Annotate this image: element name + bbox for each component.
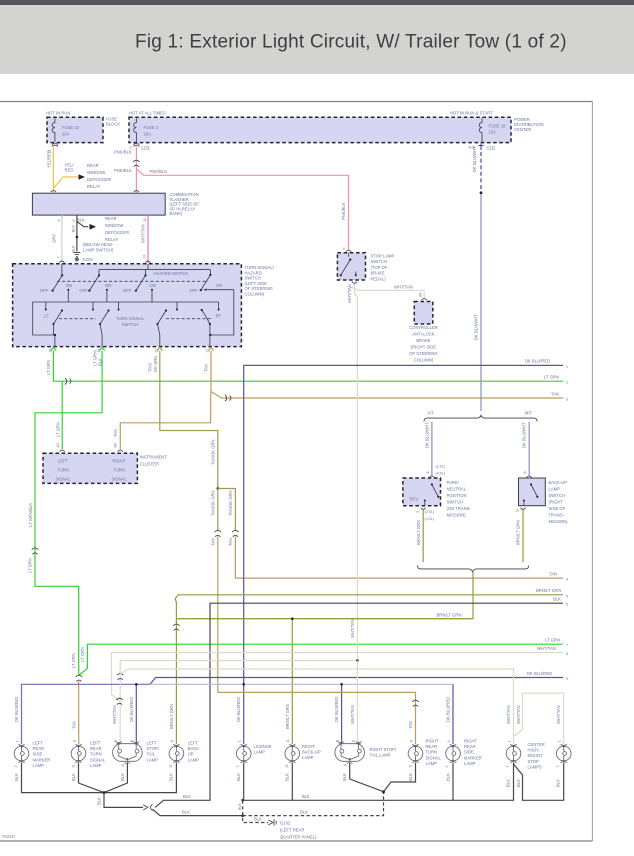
svg-text:BLK: BLK — [556, 779, 561, 787]
svg-text:HIGH-: HIGH- — [528, 748, 540, 753]
wire TAN Y branch to bus 3 — [211, 391, 568, 401]
svg-text:2: 2 — [445, 765, 449, 767]
svg-text:TURN: TURN — [113, 468, 125, 473]
turn signal linkage dashed line — [59, 318, 213, 320]
svg-text:DK BLU/WHT: DK BLU/WHT — [424, 422, 429, 448]
junction TAN/DK GRN split — [217, 487, 220, 490]
back-up switch contact arm — [523, 483, 539, 505]
splice lower on left tail pin A wire — [116, 698, 123, 704]
svg-text:8: 8 — [566, 652, 568, 656]
svg-text:BLK: BLK — [72, 224, 76, 232]
svg-text:MISSION): MISSION) — [447, 513, 467, 518]
wire DK BLU/RED bus 9 from right edge with jog — [150, 671, 568, 685]
svg-text:RIGHT STOP/: RIGHT STOP/ — [370, 747, 397, 752]
svg-text:HAZARD SWITCH: HAZARD SWITCH — [154, 271, 189, 276]
svg-text:WHT/TAN: WHT/TAN — [141, 224, 146, 243]
svg-text:BLK: BLK — [553, 597, 561, 602]
connector arc backup switch pin A — [527, 476, 532, 478]
wire BLK right turn signal to junction — [384, 763, 416, 792]
svg-text:5: 5 — [566, 594, 568, 598]
wire DK BLU/RED drop to right stop/tail lamp pin B — [334, 683, 343, 744]
svg-text:BRN/LT GRN: BRN/LT GRN — [169, 704, 174, 729]
svg-text:LT GRN: LT GRN — [55, 422, 60, 437]
wire WHT/TAN long vertical to rear lamps — [347, 284, 358, 661]
lamp: center high-mount stop lamp B — [556, 744, 571, 767]
turn signal rail left U to LT output — [33, 302, 55, 347]
svg-text:CENTER: CENTER — [528, 742, 545, 747]
svg-text:LAMP: LAMP — [302, 755, 314, 760]
hazard top rail — [99, 269, 210, 271]
diagram frame bottom line — [0, 840, 592, 842]
wire BRN/LT GRN cross line to right back-up lamp — [176, 619, 473, 744]
diagram frame right line — [591, 102, 593, 842]
wire TAN pin17 down with Y-split — [113, 351, 211, 450]
lamp: left stop/tail lamp (dual) — [113, 741, 160, 767]
svg-text:SWITCH: SWITCH — [245, 276, 262, 281]
lamp: left back-up lamp — [169, 741, 201, 768]
svg-text:7593H: 7593H — [2, 834, 16, 839]
hazard switch pole 3 — [123, 274, 156, 293]
ground symbol G102 — [268, 819, 276, 825]
svg-text:1: 1 — [507, 740, 511, 742]
wire TAN/DK GRN right branch — [218, 489, 236, 531]
lamp: center high-mount stop lamp A — [506, 742, 545, 769]
splice on left branch — [215, 530, 222, 536]
svg-text:LEFT: LEFT — [33, 741, 44, 746]
hazard output pin 12 connector — [157, 347, 162, 350]
svg-text:SWITCH: SWITCH — [447, 500, 464, 505]
svg-text:TAN/DK GRN: TAN/DK GRN — [228, 490, 233, 516]
turn signal rail — [46, 302, 219, 309]
junction dot left ground bus — [103, 791, 106, 794]
svg-text:LT GRN: LT GRN — [545, 638, 560, 643]
connector C151 under fuse 3, pin 1 — [130, 143, 150, 149]
svg-text:CLUSTER: CLUSTER — [140, 461, 160, 466]
wire DK BLU/RED drop to left stop/tail lamp pin B — [129, 683, 138, 744]
svg-text:SIDE: SIDE — [33, 752, 43, 757]
svg-text:SIGNAL: SIGNAL — [90, 757, 106, 762]
svg-text:LT GRN: LT GRN — [80, 647, 85, 662]
fuse F18 symbol — [479, 118, 506, 142]
dot at dashed vertical top — [241, 799, 244, 802]
PNP switch contact arm — [410, 483, 440, 505]
svg-text:BRN/LT GRN: BRN/LT GRN — [536, 588, 561, 593]
svg-text:PNK/BLK: PNK/BLK — [114, 168, 132, 173]
wire BLK junction down to inline connector — [97, 793, 144, 808]
wire LT GRN branch down to instrument cluster A2 — [55, 381, 62, 449]
dot at dashed vertical bottom — [241, 814, 244, 817]
svg-text:PNK/BLK: PNK/BLK — [341, 202, 346, 220]
svg-text:BLK: BLK — [516, 779, 521, 787]
svg-text:LT GRN: LT GRN — [544, 375, 559, 380]
svg-text:MOUNT: MOUNT — [528, 753, 544, 758]
svg-text:LAMP SWITCH): LAMP SWITCH) — [83, 248, 114, 253]
svg-text:LICENSE: LICENSE — [254, 744, 272, 749]
junction dot right ground — [382, 790, 385, 793]
svg-text:5: 5 — [72, 219, 76, 221]
svg-text:(4.0L): (4.0L) — [425, 517, 435, 521]
svg-text:(4.0L): (4.0L) — [436, 472, 446, 476]
svg-text:LT GRN: LT GRN — [28, 558, 33, 573]
wire WHT/TAN loop to second center lamp — [514, 693, 564, 744]
svg-text:BLK: BLK — [97, 797, 102, 805]
svg-text:MARKER: MARKER — [464, 755, 482, 760]
svg-text:DK BLU/RED: DK BLU/RED — [446, 697, 451, 722]
svg-text:TAN: TAN — [71, 721, 76, 729]
back-up lamp switch box — [519, 478, 569, 524]
svg-text:WHT/TAN: WHT/TAN — [112, 705, 117, 724]
wire BRN/LT GRN from PNP down — [416, 510, 423, 563]
splice on PNK/BLK — [133, 160, 140, 166]
svg-text:RIGHT: RIGHT — [112, 458, 125, 463]
flasher pin 2 connector — [134, 190, 139, 192]
lamp: right rear turn signal lamp — [408, 739, 441, 768]
svg-text:2: 2 — [236, 765, 240, 767]
svg-text:TAIL LAMP: TAIL LAMP — [370, 753, 391, 758]
wire WHT/TAN to controller anti-lock brake — [354, 284, 424, 299]
svg-text:RIGHT: RIGHT — [302, 744, 315, 749]
svg-text:G: G — [121, 764, 125, 767]
junction dot on DK BLU/WHT — [480, 191, 483, 194]
lamp: right rear side marker lamp — [445, 739, 482, 768]
splice upper on left tail pin A wire — [117, 674, 124, 680]
dashed BLK vertical and ground lead — [238, 800, 317, 839]
wire LT GRN branch up to bus 7 — [79, 638, 568, 676]
svg-text:C151: C151 — [141, 146, 150, 150]
svg-text:DK BLU/RED: DK BLU/RED — [525, 359, 550, 364]
junction dot right back-up feed — [291, 617, 294, 620]
wire BLK bus 6 from right edge with dropper — [155, 597, 568, 808]
svg-text:LAMP: LAMP — [464, 761, 476, 766]
fuse block box (FUSE 10) — [46, 111, 120, 143]
svg-text:TAN: TAN — [113, 429, 118, 437]
svg-text:(BELOW HEAD-: (BELOW HEAD- — [83, 242, 114, 247]
wire BLK connector to dashed ground leg — [153, 809, 309, 815]
svg-text:1: 1 — [566, 365, 568, 369]
svg-text:RIGHT: RIGHT — [464, 739, 477, 744]
svg-text:WINDOW: WINDOW — [105, 223, 123, 228]
svg-text:BLK: BLK — [445, 773, 450, 781]
wire PNK/BLK from fuse 3 down to flasher pin 2 — [114, 147, 136, 212]
svg-text:LEFT: LEFT — [147, 741, 158, 746]
svg-text:REAR: REAR — [87, 163, 99, 168]
svg-text:LT GRN: LT GRN — [46, 360, 51, 375]
svg-text:SIGNAL: SIGNAL — [426, 755, 442, 760]
svg-text:1: 1 — [557, 740, 561, 742]
wire DK BLU/RED bus 1 from right edge, corner down the middle — [244, 359, 568, 685]
svg-text:SWITCH: SWITCH — [549, 493, 566, 498]
wire BLK right back-up down — [285, 763, 293, 801]
wire BLK solid ground bus to center lamps — [243, 794, 514, 800]
svg-text:BACK-UP: BACK-UP — [549, 480, 568, 485]
svg-text:20A: 20A — [62, 131, 70, 136]
svg-text:TURN: TURN — [57, 468, 69, 473]
svg-text:OFF: OFF — [123, 288, 132, 293]
wire BLK center lamp A to lamp B ground link — [514, 763, 564, 801]
wire BLK flasher pin 5 to ground G202 — [72, 215, 89, 252]
svg-text:REAR: REAR — [33, 746, 45, 751]
svg-text:10: 10 — [143, 217, 147, 221]
wire TAN right branch to bus 4 — [228, 537, 568, 582]
svg-text:QUARTER PANEL): QUARTER PANEL) — [280, 835, 317, 840]
svg-text:TURN SIGNAL: TURN SIGNAL — [116, 316, 145, 321]
svg-text:DK BLU/RED: DK BLU/RED — [527, 671, 552, 676]
svg-text:SIDE: SIDE — [464, 750, 474, 755]
wire BLK left side marker to junction — [14, 763, 104, 793]
svg-text:G: G — [408, 765, 412, 768]
svg-text:(ON TRANS-: (ON TRANS- — [447, 506, 472, 511]
turn signal pole mid-right — [156, 309, 167, 346]
svg-text:STOP/: STOP/ — [147, 746, 160, 751]
svg-text:(2.5L): (2.5L) — [425, 510, 435, 514]
svg-text:6: 6 — [566, 603, 568, 607]
stop lamp switch contact arm — [340, 253, 357, 277]
hazard pin 7 connector — [59, 261, 64, 263]
svg-text:LAMP: LAMP — [188, 757, 200, 762]
svg-text:BLK: BLK — [72, 245, 76, 253]
wire BRN/LT GRN from brace down and left — [176, 572, 473, 619]
svg-text:A/T: A/T — [427, 411, 434, 416]
svg-text:BLOCK: BLOCK — [106, 122, 120, 127]
svg-text:SIGNAL: SIGNAL — [111, 477, 127, 482]
svg-text:BLK: BLK — [98, 358, 103, 366]
svg-text:SIDE OF: SIDE OF — [549, 506, 566, 511]
wire WHT/TAN bus 8 from right edge, corner down to left tail feed — [112, 646, 569, 701]
svg-text:LAMPS: LAMPS — [528, 764, 542, 769]
svg-text:DK GRN: DK GRN — [153, 356, 158, 372]
svg-text:TURN SIGNAL/: TURN SIGNAL/ — [245, 265, 275, 270]
wire BLK left stop/tail to junction — [104, 763, 127, 793]
svg-text:STOP: STOP — [528, 759, 540, 764]
svg-text:1: 1 — [447, 740, 451, 742]
svg-text:A2: A2 — [56, 443, 60, 448]
svg-text:C151: C151 — [487, 146, 496, 150]
svg-text:B6: B6 — [114, 443, 118, 448]
svg-text:PNK/BLK: PNK/BLK — [150, 169, 168, 174]
svg-text:G202: G202 — [83, 257, 94, 262]
svg-text:G: G — [71, 765, 75, 768]
wire BLK right side marker down — [445, 763, 453, 801]
svg-text:INSTRUMENT: INSTRUMENT — [140, 455, 168, 460]
fuse block pin connector — [52, 143, 58, 146]
svg-text:RT: RT — [216, 314, 222, 319]
svg-text:LEFT: LEFT — [58, 458, 69, 463]
svg-text:TAN: TAN — [551, 391, 559, 396]
svg-text:G: G — [285, 765, 289, 768]
svg-text:COLUMN): COLUMN) — [245, 292, 265, 297]
svg-text:BLK: BLK — [238, 802, 242, 810]
turn signal contact dots — [45, 309, 220, 311]
svg-text:(TOP OF: (TOP OF — [371, 265, 388, 270]
svg-text:DK BLU/WHT: DK BLU/WHT — [474, 314, 479, 340]
svg-text:BRAKE: BRAKE — [371, 271, 385, 276]
svg-text:DK BLU/RED: DK BLU/RED — [334, 697, 339, 722]
svg-text:BLK: BLK — [14, 773, 19, 781]
svg-text:PNK/BLK: PNK/BLK — [114, 150, 132, 155]
svg-text:TURN: TURN — [426, 750, 438, 755]
svg-text:12: 12 — [155, 349, 159, 353]
svg-text:2: 2 — [14, 765, 18, 767]
svg-text:HOT AT ALL TIMES: HOT AT ALL TIMES — [129, 111, 166, 116]
wire LT GRN/BLK pin15 down, left, down left side — [28, 349, 103, 674]
arrow note: rear window defogger relay (lower) — [77, 216, 129, 242]
svg-text:BRAKE: BRAKE — [416, 338, 430, 343]
hazard output pin 17 connector — [208, 347, 213, 350]
hazard switch pole 1 — [40, 274, 72, 293]
splice on right turn lamp feed — [412, 700, 419, 706]
svg-text:(2.5L): (2.5L) — [436, 465, 446, 469]
svg-text:LAMP: LAMP — [147, 757, 159, 762]
wire TAN below splice to left rear turn signal lamp — [71, 682, 78, 745]
splice on LT GRN bus 2 — [65, 378, 71, 385]
PNP pin 3 labels — [416, 510, 434, 521]
svg-text:OFF: OFF — [79, 288, 88, 293]
turn signal pole LT — [52, 309, 63, 335]
svg-text:WINDOW: WINDOW — [87, 170, 105, 175]
svg-text:20A: 20A — [144, 131, 152, 136]
merge brace for BRN/LT GRN — [418, 566, 529, 572]
lamp: right back-up lamp — [285, 744, 321, 768]
svg-text:BRN/LT GRN: BRN/LT GRN — [416, 520, 421, 545]
svg-text:LT: LT — [44, 314, 49, 319]
svg-text:7: 7 — [57, 256, 61, 258]
svg-text:WHT/TAN: WHT/TAN — [516, 705, 521, 724]
hazard output pin 16 connector — [51, 347, 56, 350]
brace splitting to A/T and M/T — [424, 415, 537, 421]
svg-text:RED: RED — [65, 168, 74, 173]
svg-text:15A: 15A — [489, 130, 497, 135]
svg-text:DK BLU/WHT: DK BLU/WHT — [472, 146, 477, 172]
svg-text:BLK: BLK — [120, 773, 125, 781]
junction dot on BLK — [76, 236, 79, 239]
hazard pole4 ON contact U-path to RT output — [203, 288, 234, 336]
svg-text:HOT IN RUN & START: HOT IN RUN & START — [450, 111, 493, 116]
splice on right branch — [232, 530, 239, 536]
svg-text:BRN/LT GRN: BRN/LT GRN — [516, 520, 521, 545]
hazard pole stems from box pins — [62, 264, 211, 302]
svg-text:ANTI-LOCK: ANTI-LOCK — [412, 332, 435, 337]
svg-text:M/T: M/T — [525, 411, 533, 416]
splice LT GRN to TAN (left turn feed) — [76, 675, 83, 681]
svg-text:4: 4 — [57, 219, 61, 221]
svg-text:GRY: GRY — [52, 234, 57, 243]
splice on left back-up feed — [173, 624, 180, 630]
connector arc PNP bottom — [421, 508, 426, 510]
svg-text:BLK: BLK — [71, 773, 76, 781]
svg-text:NEUTRAL: NEUTRAL — [447, 487, 467, 492]
svg-text:LAMP: LAMP — [426, 761, 438, 766]
svg-text:BLK: BLK — [342, 773, 347, 781]
svg-text:SWITCH: SWITCH — [371, 259, 388, 264]
svg-text:BLK: BLK — [302, 794, 310, 799]
svg-text:LAMP: LAMP — [90, 763, 102, 768]
svg-text:16: 16 — [49, 349, 53, 353]
svg-text:BRN/LT GRN: BRN/LT GRN — [437, 612, 462, 617]
controller anti-lock brake box — [409, 302, 438, 363]
svg-text:1: 1 — [238, 740, 242, 742]
svg-text:MISSION): MISSION) — [549, 519, 569, 524]
svg-text:UP: UP — [188, 752, 194, 757]
svg-text:2: 2 — [506, 765, 510, 767]
turn signal pole mid-left — [99, 309, 110, 346]
combination flasher box — [32, 192, 199, 216]
svg-text:ON: ON — [216, 283, 222, 288]
wire WHT/TAN right tail pin A drop — [350, 661, 358, 745]
svg-text:REV: REV — [410, 497, 419, 502]
hazard linkage dashed line — [57, 280, 208, 282]
svg-text:DK BLU/RED: DK BLU/RED — [14, 697, 19, 722]
svg-text:4: 4 — [566, 578, 568, 582]
svg-text:3: 3 — [566, 398, 568, 402]
svg-text:9: 9 — [566, 677, 568, 681]
wire DK BLU/WHT solid down to A/T M/T brace — [474, 194, 482, 411]
svg-text:BLK: BLK — [285, 773, 290, 781]
diagram frame top line — [0, 101, 593, 103]
splice on left LT GRN run — [32, 548, 39, 554]
svg-text:BLK: BLK — [300, 810, 308, 815]
svg-text:TAN: TAN — [203, 364, 208, 372]
svg-text:FUSE 3: FUSE 3 — [144, 125, 159, 130]
right turn signal label — [111, 458, 127, 481]
svg-text:BLK: BLK — [236, 773, 241, 781]
stop lamp switch box — [337, 253, 394, 282]
svg-text:BACK-: BACK- — [188, 746, 201, 751]
wire DK BLU/RED drop to license lamp — [236, 683, 245, 744]
flasher pin 1 connector — [51, 190, 56, 192]
wire BLK left back-up to junction — [104, 763, 176, 793]
lamp: left rear side marker lamp — [14, 741, 51, 768]
svg-text:REAR: REAR — [90, 746, 102, 751]
svg-text:G102: G102 — [280, 821, 291, 826]
svg-text:REAR: REAR — [426, 744, 438, 749]
cluster pin A2 connector — [60, 450, 65, 452]
inline connector symbol — [143, 804, 152, 810]
svg-text:TAN/: TAN/ — [148, 362, 153, 372]
svg-text:TAN/DK GRN: TAN/DK GRN — [210, 490, 215, 516]
svg-text:2: 2 — [556, 765, 560, 767]
svg-text:DEFOGGER: DEFOGGER — [105, 230, 129, 235]
svg-text:TAN: TAN — [210, 538, 215, 546]
svg-text:LT GRN: LT GRN — [71, 653, 76, 668]
svg-text:2: 2 — [566, 381, 568, 385]
svg-text:FUSE 10: FUSE 10 — [62, 125, 80, 130]
svg-text:OFF: OFF — [189, 288, 198, 293]
svg-text:A8: A8 — [418, 292, 422, 297]
svg-text:1: 1 — [15, 740, 19, 742]
hazard output pin 15 connector — [100, 347, 105, 350]
arrow note: rear window defogger relay (upper) — [79, 163, 111, 189]
svg-text:SWITCH: SWITCH — [122, 322, 139, 327]
turn signal / hazard switch box — [13, 264, 275, 347]
svg-text:WHT/TAN: WHT/TAN — [350, 619, 355, 638]
svg-text:DK BLU/RED: DK BLU/RED — [236, 697, 241, 722]
svg-text:TAN/DK GRN: TAN/DK GRN — [210, 439, 215, 465]
splice on TAN bus 3 — [225, 395, 231, 402]
svg-text:G: G — [516, 509, 520, 512]
svg-text:(RIGHT: (RIGHT — [549, 500, 564, 505]
svg-text:TAN: TAN — [228, 538, 233, 546]
header dark top bar — [0, 0, 634, 5]
svg-text:YEL/RED: YEL/RED — [47, 150, 52, 168]
svg-text:SIGNAL: SIGNAL — [55, 477, 71, 482]
wire TAN/DK GRN pin12 down, right, down — [148, 351, 218, 489]
hazard switch pole 2 — [79, 274, 111, 293]
svg-text:TAN: TAN — [408, 721, 413, 729]
wire WHT/TAN (pink) flasher pin 10 to hazard pin 13 — [141, 215, 149, 263]
wire PNK/BLK branch to stop lamp switch — [136, 169, 348, 251]
svg-text:BRN/LT GRN: BRN/LT GRN — [285, 704, 290, 729]
svg-text:OF STEERING: OF STEERING — [409, 351, 437, 356]
